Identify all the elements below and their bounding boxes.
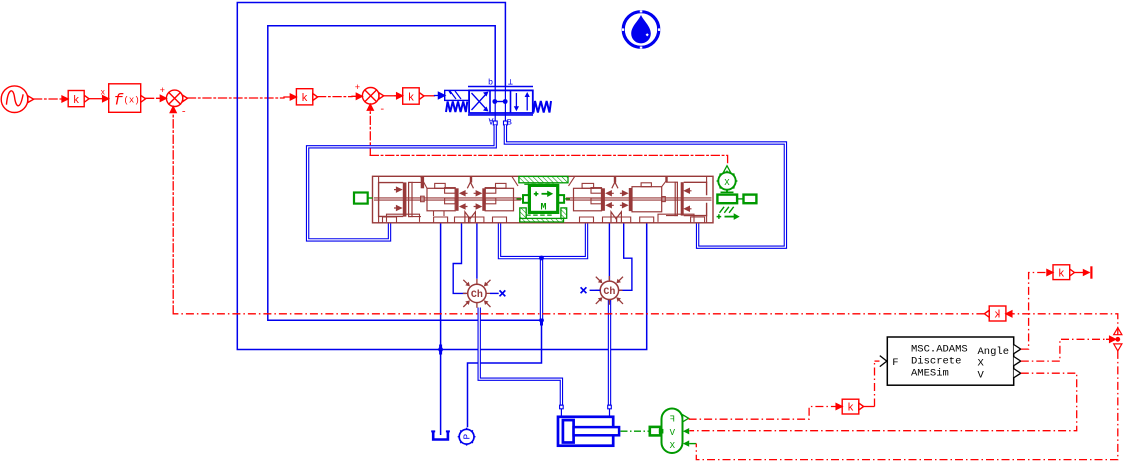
mechanical interface block FVX [650,409,697,454]
pipe: manifold port to right chamber sensor top [608,223,610,280]
svg-text:P: P [462,434,473,440]
servovalve pilot actuator box [445,90,469,100]
wire: k2 to summer2 [318,96,352,98]
wire: k1 to f(x) [89,98,102,100]
pressure source P [459,429,474,444]
svg-text:X: X [978,358,985,370]
green spool mass block M [529,185,557,212]
svg-text:X: X [670,441,676,451]
node x (right chamber signal port) [590,289,601,291]
chamber 4 [569,176,575,186]
servovalve left spring [446,102,467,113]
gain k1 [68,91,89,107]
spool valve manifold envelope [373,176,714,223]
node x (left chamber signal port) [490,292,499,294]
gain k3 [403,88,424,104]
summer junction 1 [166,90,187,106]
manifold bottom port notches [383,217,705,223]
orifice arrows cluster right [607,191,614,208]
damper ground hatch [720,207,734,213]
function block f(x) [109,84,141,113]
servovalve body plates [468,86,533,88]
wire: source to gain k1 [34,98,62,100]
svg-text:+: + [355,83,360,93]
manifold top connector bars [421,176,424,188]
mechanical port (left rod end) [354,193,373,204]
green mass top hatch wall [519,176,568,182]
pipe: manifold port to right chamber sensor side [620,223,632,290]
svg-text:k: k [408,92,415,104]
ADAMS output ports [1014,345,1021,354]
svg-text:M: M [540,203,546,214]
pipe: right chamber sensor to cylinder right port (double line) [608,300,611,406]
gain k4 [842,399,863,414]
svg-text:⊥: ⊥ [508,78,513,88]
orifice arrows cluster left [460,191,467,209]
link: cylinder rod to mechanical interface [621,430,650,432]
svg-text:AMESim: AMESim [911,368,949,380]
chamber 2 [421,176,428,188]
servovalve right spring [534,101,552,113]
spring notch M right [611,212,621,223]
wire: k3 to servovalve input [424,95,435,97]
svg-text:Discrete: Discrete [911,356,961,368]
svg-text:Ch: Ch [471,289,483,301]
junction: supply tee [539,256,544,261]
valve position 3 parallel arrows [515,93,517,108]
hydraulic cylinder [558,417,619,446]
valve port B square [504,121,508,125]
spring notch M left [465,212,476,223]
rod coupler right [662,197,666,202]
manifold spool rod (double line) [374,198,712,200]
svg-text:x: x [100,89,105,98]
chamber 5 [632,187,662,212]
pipe: supply loop (valve P port - inner top loop - supply junction) [268,26,542,428]
left piston bars [403,182,407,216]
valve port A square [493,121,497,125]
valve port P stub [494,87,496,122]
pipe: supply double line into manifold P ports [500,223,587,258]
fluid properties icon [622,10,660,48]
svg-text:f: f [114,92,124,110]
valve port T stub [504,87,506,122]
wire: k4 to ADAMS F input [864,406,875,408]
summer junction 2 [362,88,383,105]
signal terminator [1090,266,1092,278]
wire: X output to duplicator junction [1021,339,1106,361]
svg-text:k: k [301,93,308,105]
right chamber bracket [684,182,707,215]
svg-text:V: V [978,370,985,382]
svg-text:k: k [847,403,854,415]
signal duplicator junction [1115,337,1120,342]
green mass bottom hatch wall [520,208,526,222]
wire: summer2 minus input from displacement sensor [369,110,371,155]
wire: duplicator up to mirrored gain k6 [1012,314,1118,335]
svg-text:k: k [73,95,80,107]
wire: V output to interface V input [689,373,1076,431]
displacement sensor X on spool [717,166,757,220]
pipe: tank return loop (valve T port - top loop - tank line - manifold) [237,3,646,350]
mirrored gain k6 [984,306,1006,321]
wire: duplicator down to X input of interface [696,351,1118,460]
svg-text:(x): (x) [124,96,140,106]
valve position 1 crossed arrows [472,93,488,110]
pipe: manifold port to left chamber sensor top [476,223,478,279]
wire: force output to gain k4 [689,407,834,420]
svg-text:F: F [670,415,675,425]
pressure chamber sensor Ch right [595,276,623,305]
gain k5 [1053,265,1074,280]
svg-text:MSC.ADAMS: MSC.ADAMS [911,344,968,356]
spool damper [717,195,737,204]
svg-text:k: k [994,310,1001,322]
servovalve 3-position body [469,90,533,113]
pipe: left chamber sensor to cylinder left port (double line) [479,308,561,406]
ADAMS F input arrow [880,356,887,367]
wire: summer2 to gain k3 [384,95,395,97]
wire: f(x) to summer1 [146,97,159,99]
svg-text:V: V [670,428,676,438]
pressure chamber sensor Ch left [463,279,491,308]
left piston arrows [394,187,401,210]
signal source (sine generator) [1,86,33,113]
wire: k5 to terminal [1074,272,1089,274]
cylinder port squares [560,405,564,409]
velocity arrow label [717,214,722,219]
wire: Angle output to gain k5 [1021,273,1042,350]
pipe: valve B port to manifold right end (double line) [505,125,785,247]
wire: position feedback to summer1 minus [173,313,984,315]
junction: tank line [439,345,442,355]
svg-text:b: b [488,78,493,88]
svg-text:Angle: Angle [978,346,1010,358]
pipe: manifold port to left chamber sensor side [453,223,466,294]
tank symbol [433,431,448,439]
gain k2 [296,89,317,105]
chamber 3 [485,188,513,211]
svg-text:Ch: Ch [603,286,615,298]
right piston bars [675,182,677,215]
co-simulation block MSC.ADAMS [887,337,1013,385]
pipe: manifold tank port down to tank [440,223,442,435]
svg-text:-: - [379,105,385,116]
svg-text:+: + [160,86,165,96]
pipe: valve A port to manifold left end (double line) [308,125,496,240]
right piston arrows [685,189,692,212]
svg-text:-: - [181,108,187,119]
valve position 2 closed centre [492,99,497,104]
svg-text:F: F [892,357,898,369]
svg-text:k: k [1058,268,1065,280]
svg-text:X: X [724,178,730,188]
left piston chamber bracket [379,183,404,217]
junction: supply line [540,316,543,326]
wire: summer1 to gain k2 [188,97,285,99]
wire: summer1 minus input (feedback from right) [172,110,174,314]
rod coupler left [421,196,425,202]
manifold bottom pads [387,214,420,222]
